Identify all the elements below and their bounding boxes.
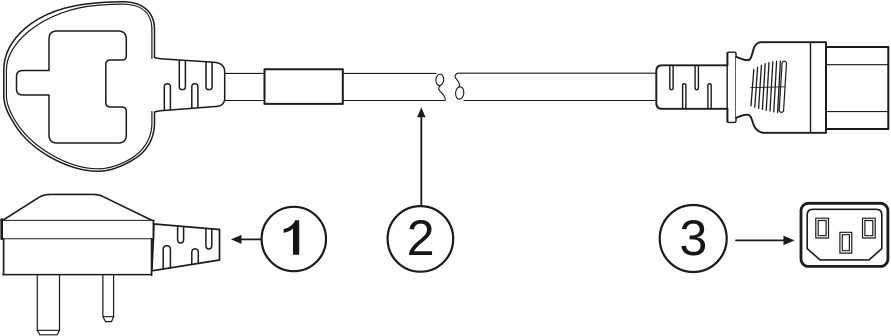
svg-text:3: 3 [679, 210, 707, 266]
svg-text:2: 2 [407, 210, 435, 266]
